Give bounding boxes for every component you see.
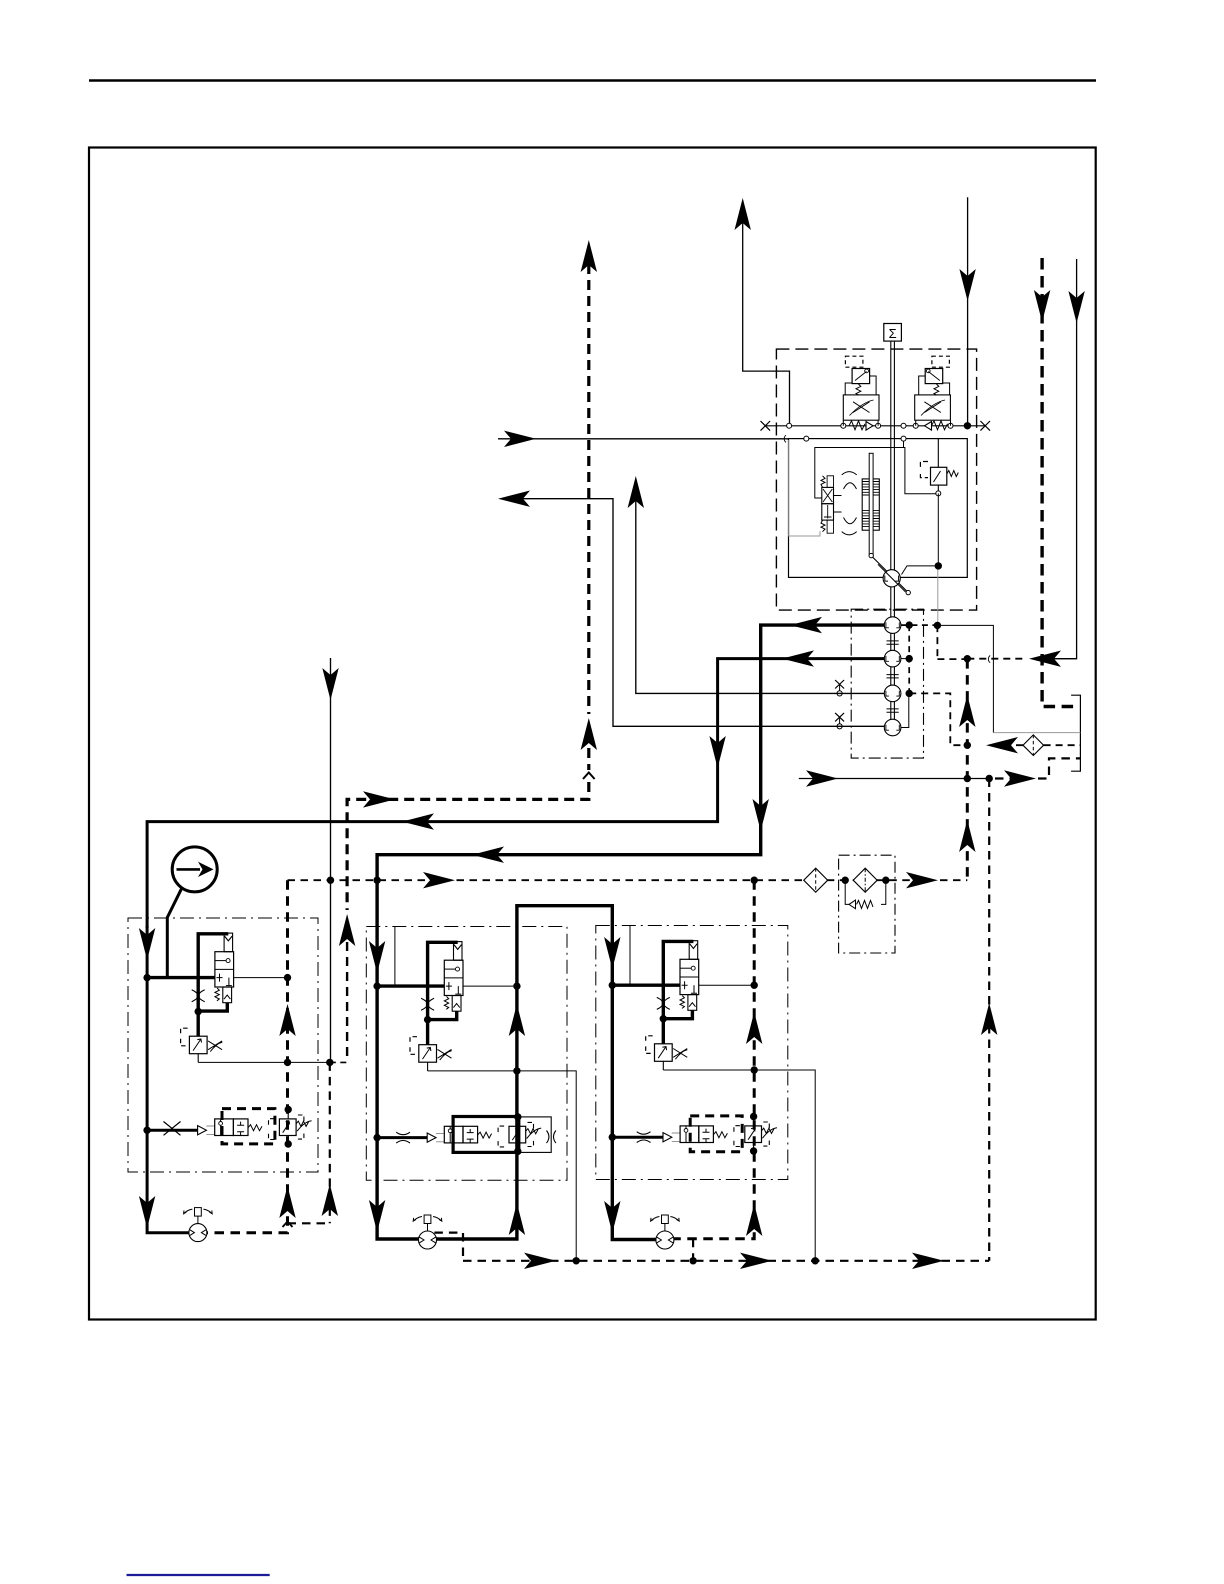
cooler port bracket xyxy=(1071,695,1080,771)
wire: F2b outlet to drain riser (dashed right arrow) xyxy=(876,872,967,888)
wire: FC2 tap to return riser xyxy=(463,985,517,987)
gear pump P1 xyxy=(884,617,901,634)
plug X on P3 line xyxy=(835,680,844,696)
wire: middle section return / right section feed crossover (thick) xyxy=(517,906,612,942)
wire: drain jog between risers (dashed) xyxy=(288,1062,338,1223)
wire: FC3 tap to pilot riser xyxy=(699,984,755,986)
pilot relief valve RV1 xyxy=(920,439,958,496)
wire: PRV1 drain gallery xyxy=(198,1061,347,1063)
relief pilot loop to servo valve xyxy=(815,448,936,499)
wire: pilot dashed riser into left section xyxy=(339,914,355,1057)
wire: PRV2 drain to tank gallery xyxy=(428,1071,577,1261)
wire: return riser from tank manifold (dashed) xyxy=(981,779,997,1261)
gear pump stack enclosure (dash-dot) xyxy=(851,609,923,758)
case drain manifold (dashed) xyxy=(901,625,967,693)
svg-text:Σ: Σ xyxy=(889,326,897,341)
wire: tank line T1 with up arrow xyxy=(735,198,790,423)
case drain stub (grey) xyxy=(937,566,939,626)
fan motor M1 xyxy=(184,1208,213,1242)
tank return gallery (dashed) xyxy=(463,1253,989,1269)
servo piston with seals xyxy=(862,479,879,530)
pump outlet elbow to case xyxy=(902,493,939,574)
wire: M3 drain jog to tank gallery (dashed) xyxy=(692,1239,694,1261)
right fan section enclosure (dash-dot) xyxy=(596,926,788,1180)
left section supply line (thick) xyxy=(139,926,189,1233)
wire: case drain riser (dashed, two up arrows) xyxy=(959,659,975,880)
wire: M2 drain to tank gallery (dashed) xyxy=(434,1233,463,1261)
control rail with plugged ends xyxy=(761,421,991,431)
drive shaft (double line) xyxy=(887,341,899,719)
pressure gauge G1 xyxy=(167,847,217,978)
wire: F2a to F2b xyxy=(827,879,854,881)
servo pilot line (grey) xyxy=(789,440,820,536)
orifice on UV2 branch xyxy=(396,1132,410,1143)
wire: gauge port line with down arrow xyxy=(322,658,338,1062)
wire: cooler return line (thin, right arrow) xyxy=(799,770,989,786)
wire: filter F1 to case manifold (dashed, left arrow) xyxy=(986,737,1023,753)
wire: PRV3 drain to tank gallery xyxy=(663,1070,815,1261)
drain filter F2a xyxy=(804,868,828,892)
wire: return to cooler elbow (dashed, right arrow) xyxy=(995,758,1080,786)
gear pump P3 xyxy=(884,685,901,702)
left pilot riser (dashed) xyxy=(207,880,296,1232)
rail ports xyxy=(787,423,953,428)
wire: case line P1 to cooler loop xyxy=(937,625,993,732)
wire: pump P2 outlet to left fan section (thick) xyxy=(139,650,884,960)
flow control valve FC3 xyxy=(611,941,698,1070)
right section supply line (thick) xyxy=(604,937,656,1240)
middle section supply line (thick) xyxy=(369,926,419,1239)
orifice on UV3 branch xyxy=(637,1132,651,1143)
stroking cylinder arcs xyxy=(842,472,857,535)
bypass filter enclosure (dash-dot) xyxy=(839,855,895,953)
footer blue line xyxy=(127,1574,270,1576)
fan motor M3 xyxy=(651,1215,680,1249)
variable pump unit P xyxy=(878,564,906,592)
header rule xyxy=(89,79,1096,81)
wire: pump P4 line to port (left arrow) xyxy=(498,491,884,727)
UV2 valve enclosure (thick) xyxy=(453,1117,519,1153)
right section boundary tap stub xyxy=(629,926,631,986)
schematic border frame xyxy=(89,148,1096,1320)
rail spring-check right xyxy=(925,421,948,430)
wire: drain gallery dashed header xyxy=(288,872,805,888)
wire: supply line S1 down to regulator rail xyxy=(959,197,975,426)
compensator valve PC1 (left) xyxy=(843,356,879,426)
wire: load-sense line into regulator (right arrow) xyxy=(498,431,789,447)
pump assembly enclosure (dashed) xyxy=(776,349,976,610)
plug X on P4 line xyxy=(835,713,844,729)
UV1 valve enclosure (thick dashed) xyxy=(222,1109,275,1144)
wire: P3 case drain to filter line (dashed) xyxy=(909,693,963,745)
unloader valve UV1 xyxy=(146,1110,312,1145)
right pilot riser (dashed) xyxy=(674,880,763,1239)
middle fan section enclosure (dash-dot) xyxy=(366,927,567,1181)
bypass check relief under F2b xyxy=(845,880,886,908)
wire: cooler feed (grey) xyxy=(993,732,1080,734)
servo control valve SV1 xyxy=(821,476,842,533)
flow control valve FC2 xyxy=(376,942,463,1071)
wire: pump P1 outlet to middle fan section (thick) xyxy=(377,617,884,927)
regulator housing box xyxy=(789,436,968,577)
gear pump P2 xyxy=(884,650,901,667)
wire: drain pilot line (dashed) down right side xyxy=(1034,258,1080,707)
orifice at UV2 relief outlet xyxy=(547,1131,556,1144)
left fan section enclosure (dash-dot) xyxy=(128,918,318,1172)
swashplate link xyxy=(873,557,911,595)
fan motor M2 xyxy=(413,1215,442,1249)
wire: pump P3 line to port (up arrow) xyxy=(628,476,885,693)
middle return riser (thick) xyxy=(437,928,526,1239)
pilot riser break chevron xyxy=(283,1222,293,1228)
gear pump P4 xyxy=(884,719,901,736)
feedback rod xyxy=(869,453,873,558)
wire: return line down to cooler elbow xyxy=(1041,259,1085,659)
wire: P4 case to P3 drain elbow xyxy=(901,693,909,727)
wire: LS pilot dashed riser with up arrow at top xyxy=(347,240,597,910)
unloader valve UV2 xyxy=(376,1117,542,1152)
crossing hop marks xyxy=(784,435,990,663)
UV3 valve enclosure (thick dashed) xyxy=(690,1116,742,1152)
unloader valve UV3 xyxy=(612,1117,778,1152)
rail spring-check left xyxy=(849,421,873,430)
drain filter F1 xyxy=(1023,735,1044,756)
flow control valve FC1 xyxy=(146,933,233,1062)
wire: FC1 tap to pilot riser xyxy=(234,977,288,979)
middle section boundary tap stub xyxy=(394,927,396,987)
summation gearbox symbol xyxy=(884,324,902,342)
orifice X on UV1 branch xyxy=(164,1122,181,1136)
bypass filter F2b xyxy=(853,868,877,892)
compensator valve PC2 (right) xyxy=(915,356,951,426)
wire: filter F1 to cooler bracket (dashed) xyxy=(1044,744,1081,746)
UV2 relief housing xyxy=(519,1117,551,1153)
wire: return to case (dashed with left arrow) xyxy=(967,651,1076,667)
